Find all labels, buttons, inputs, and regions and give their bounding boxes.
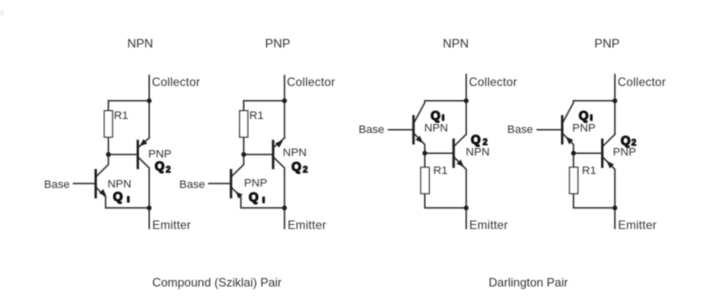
svg-text:Emitter: Emitter	[288, 218, 327, 232]
svg-text:Collector: Collector	[469, 75, 517, 89]
svg-text:Base: Base	[507, 124, 533, 136]
svg-text:2: 2	[166, 164, 171, 174]
svg-text:Collector: Collector	[618, 75, 666, 89]
svg-text:Q: Q	[113, 190, 123, 204]
svg-text:PNP: PNP	[594, 36, 619, 50]
svg-text:PNP: PNP	[572, 123, 595, 135]
svg-text:Q: Q	[471, 133, 481, 147]
svg-text:Collector: Collector	[287, 75, 335, 89]
svg-text:R1: R1	[582, 165, 596, 177]
svg-text:Collector: Collector	[152, 75, 200, 89]
svg-text:Compound (Sziklai) Pair: Compound (Sziklai) Pair	[152, 275, 281, 289]
svg-text:Base: Base	[179, 179, 205, 191]
svg-text:Base: Base	[44, 179, 70, 191]
svg-text:R1: R1	[433, 165, 447, 177]
svg-text:2: 2	[303, 164, 308, 174]
svg-text:PNP: PNP	[244, 178, 267, 190]
svg-text:Emitter: Emitter	[152, 218, 191, 232]
svg-text:Q: Q	[249, 190, 259, 204]
svg-text:Emitter: Emitter	[469, 218, 508, 232]
svg-text:NPN: NPN	[466, 146, 490, 158]
svg-text:NPN: NPN	[443, 36, 469, 50]
svg-text:NPN: NPN	[108, 178, 132, 190]
svg-text:Q: Q	[621, 134, 631, 148]
svg-text:2: 2	[631, 137, 636, 147]
svg-text:NPN: NPN	[127, 36, 153, 50]
svg-text:PNP: PNP	[265, 36, 290, 50]
svg-text:R1: R1	[249, 110, 263, 122]
svg-text:Q: Q	[431, 109, 441, 123]
svg-text:Q: Q	[579, 109, 589, 123]
svg-text:Emitter: Emitter	[618, 218, 657, 232]
svg-text:PNP: PNP	[613, 146, 636, 158]
svg-text:2: 2	[483, 137, 488, 147]
svg-text:Base: Base	[359, 124, 385, 136]
svg-text:NPN: NPN	[283, 147, 307, 159]
svg-text:Q: Q	[155, 160, 165, 174]
svg-text:Darlington Pair: Darlington Pair	[489, 275, 568, 289]
svg-text:R1: R1	[114, 110, 128, 122]
svg-text:NPN: NPN	[424, 122, 448, 134]
svg-text:Q: Q	[292, 160, 302, 174]
